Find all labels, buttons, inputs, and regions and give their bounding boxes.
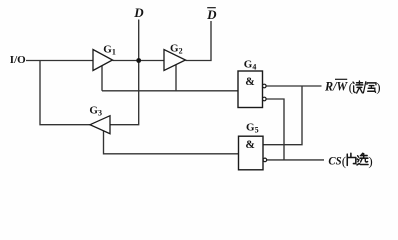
svg-text:): ) [376, 80, 380, 95]
node D-bar label [206, 7, 217, 22]
glyph du (read) [353, 81, 363, 93]
wire R/W rail [266, 85, 322, 87]
pin bubble G5 input 2 [263, 158, 267, 162]
svg-text:R/W: R/W [324, 79, 348, 93]
glyph xuan (select) [357, 153, 368, 165]
svg-text:CS: CS [328, 154, 341, 168]
svg-text:&: & [245, 76, 255, 88]
wire G1 output rail [113, 60, 165, 62]
buffer G2 [164, 43, 186, 71]
svg-text:D: D [206, 7, 217, 22]
wire G2 enable [175, 65, 177, 91]
node CS label [328, 153, 372, 168]
pin bubble G4 input 2 [263, 97, 267, 101]
svg-text:G2: G2 [170, 43, 183, 56]
wire G2 output [186, 21, 212, 61]
svg-text:(: ( [349, 80, 353, 95]
wire D line [110, 20, 139, 125]
glyph pian (chip) [347, 153, 356, 165]
buffer G3 [89, 104, 110, 133]
and-gate U G4 [238, 59, 266, 108]
wire I/O rail [26, 60, 93, 62]
wire G3 enable / G5 output rail [104, 130, 239, 153]
wire R/W to G5 input [263, 86, 302, 145]
wire G4 lower input to CS rail [266, 99, 284, 160]
svg-text:(: ( [342, 154, 346, 169]
junction dot D / G1 output [136, 58, 141, 63]
svg-text:I/O: I/O [10, 54, 26, 66]
svg-text:G1: G1 [103, 43, 116, 56]
svg-text:G5: G5 [246, 121, 259, 134]
and-gate U G5 [239, 121, 267, 169]
wire CS rail [267, 159, 324, 161]
svg-text:&: & [245, 139, 255, 151]
glyph xie (write) [367, 83, 376, 92]
svg-text:D: D [133, 5, 144, 20]
wire G1 enable [101, 65, 103, 91]
svg-text:): ) [368, 154, 372, 169]
pin bubble G4 input 1 [263, 84, 267, 88]
node R/W-bar label [324, 79, 381, 94]
slash [363, 81, 366, 93]
svg-text:G4: G4 [244, 59, 257, 72]
svg-text:G3: G3 [89, 104, 102, 117]
buffer G1 [93, 43, 116, 70]
wire G4 output rail [102, 90, 238, 92]
wire I/O-to-G3 branch [40, 61, 90, 125]
